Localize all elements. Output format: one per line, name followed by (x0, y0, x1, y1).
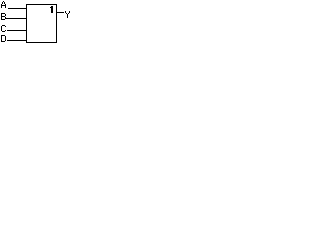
input node label A (1, 1, 6, 8)
wire input D (7, 40, 26, 41)
wire input C (7, 30, 26, 31)
input node label C (1, 25, 6, 32)
input node label D (1, 35, 6, 42)
OR gate U1 (IEC box symbol) (26, 4, 57, 43)
gate function label "1" (50, 6, 53, 13)
wire input B (6, 18, 26, 19)
output node label Y (65, 11, 70, 18)
wire input A (8, 8, 26, 9)
input node label B (1, 13, 6, 20)
wire output Y (57, 12, 64, 13)
